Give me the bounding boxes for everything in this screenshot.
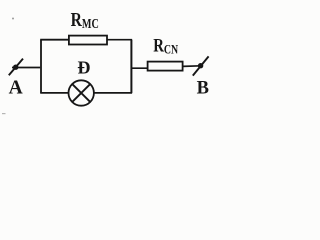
svg-text:RCN: RCN — [153, 35, 179, 57]
resistor R_CN — [148, 62, 183, 71]
wire bottom branch left segment — [40, 92, 68, 94]
node A label — [9, 77, 23, 98]
wire right vertical branch — [130, 40, 132, 93]
wire from resistor R_CN to terminal B — [183, 65, 201, 68]
resistor R_MC value label — [71, 8, 99, 31]
svg-text:Đ: Đ — [77, 57, 90, 77]
scan dash bottom left — [2, 113, 6, 114]
wire top branch right segment — [107, 39, 132, 41]
wire top branch left segment — [40, 39, 69, 41]
svg-text:A: A — [9, 77, 23, 98]
terminal B slash mark — [193, 56, 209, 75]
terminal A slash mark — [9, 59, 23, 76]
wire from right node to resistor R_CN — [131, 67, 147, 69]
lamp Đ label — [77, 57, 90, 77]
resistor R_CN value label — [153, 35, 179, 57]
terminal A dot — [13, 65, 18, 70]
lamp Đ circle — [69, 80, 94, 105]
lamp Đ cross — [72, 84, 90, 102]
terminal B dot — [198, 63, 203, 68]
resistor R_MC — [69, 36, 107, 45]
wire bottom branch right segment — [94, 92, 132, 94]
wire left vertical branch — [40, 40, 42, 93]
svg-text:B: B — [197, 79, 209, 99]
scan speck top left — [12, 18, 14, 20]
node B label — [197, 79, 209, 99]
svg-text:RMC: RMC — [71, 8, 99, 31]
wire from terminal A to left node — [12, 67, 40, 69]
